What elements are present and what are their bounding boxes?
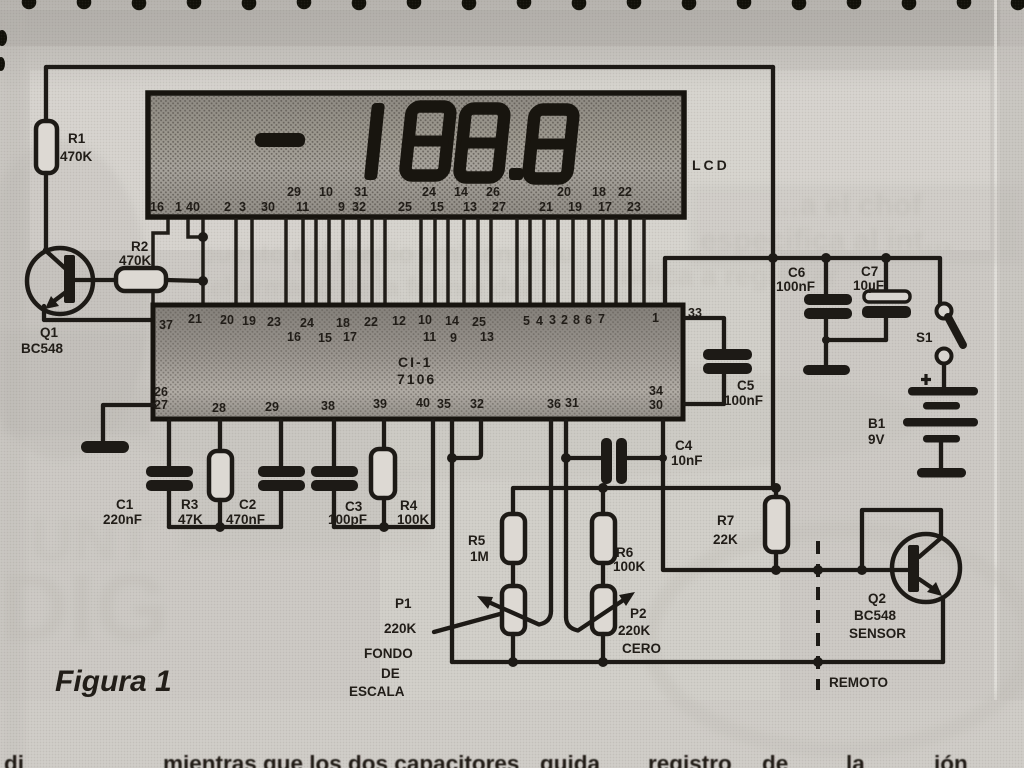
- svg-text:14: 14: [445, 314, 459, 328]
- svg-text:35: 35: [437, 397, 451, 411]
- svg-text:C5: C5: [737, 378, 755, 393]
- wire pin29 to C2: [279, 421, 283, 467]
- svg-text:REMOTO: REMOTO: [829, 675, 888, 690]
- svg-text:16: 16: [150, 200, 164, 214]
- wire pin39 to R4: [382, 421, 386, 450]
- bracket C1 R3 C2: [169, 525, 281, 529]
- svg-text:3: 3: [549, 313, 556, 327]
- top scanner dot row: [0, 0, 1024, 71]
- capacitor C1: [146, 466, 193, 477]
- svg-text:B1: B1: [868, 416, 886, 431]
- bottom rail: [452, 660, 943, 664]
- svg-text:100K: 100K: [613, 559, 646, 574]
- svg-text:100pF: 100pF: [328, 512, 367, 527]
- battery B1: [903, 387, 978, 478]
- svg-text:R1: R1: [68, 131, 86, 146]
- wire pin38 to C3: [332, 421, 336, 467]
- svg-text:7: 7: [598, 312, 605, 326]
- capacitor C5: [703, 349, 752, 360]
- svg-text:30: 30: [261, 200, 275, 214]
- svg-text:28: 28: [212, 401, 226, 415]
- svg-text:2: 2: [224, 200, 231, 214]
- svg-text:S1: S1: [916, 330, 933, 345]
- svg-text:10: 10: [418, 313, 432, 327]
- LCD pin numbers upper row: [287, 185, 632, 199]
- svg-text:17: 17: [598, 200, 612, 214]
- svg-text:14: 14: [454, 185, 468, 199]
- svg-text:26: 26: [486, 185, 500, 199]
- capacitor C7 electrolytic: [884, 258, 888, 292]
- capacitor C4: [566, 456, 601, 460]
- svg-text:13: 13: [480, 330, 494, 344]
- svg-text:18: 18: [336, 316, 350, 330]
- P1 wiper arrowhead: [477, 596, 493, 609]
- svg-text:220K: 220K: [618, 623, 651, 638]
- svg-text:ión: ión: [934, 751, 968, 768]
- svg-text:100K: 100K: [397, 512, 430, 527]
- svg-text:220nF: 220nF: [103, 512, 142, 527]
- svg-text:Figura 1: Figura 1: [55, 665, 172, 698]
- wire right column x=773: [771, 67, 775, 488]
- svg-text:40: 40: [416, 396, 430, 410]
- svg-text:15: 15: [318, 331, 332, 345]
- svg-text:5: 5: [523, 314, 530, 328]
- svg-text:23: 23: [267, 315, 281, 329]
- resistor R5: [502, 514, 525, 563]
- svg-text:24: 24: [300, 316, 314, 330]
- negative bar under C6: [803, 365, 850, 375]
- svg-text:31: 31: [354, 185, 368, 199]
- svg-text:R3: R3: [181, 497, 199, 512]
- svg-text:19: 19: [242, 314, 256, 328]
- svg-text:1M: 1M: [470, 549, 489, 564]
- LCD pin numbers lower row: [150, 200, 641, 214]
- P2 wiper arm: [566, 597, 628, 631]
- wire LCD pins 1,40 stub: [188, 219, 203, 237]
- wire S1 to battery: [942, 364, 946, 388]
- svg-text:2: 2: [561, 313, 568, 327]
- svg-text:29: 29: [265, 400, 279, 414]
- svg-text:31: 31: [565, 396, 579, 410]
- svg-text:3: 3: [239, 200, 246, 214]
- wire pin27 to C1: [167, 421, 171, 467]
- wire pin30 down and across to Q2 base: [663, 421, 908, 570]
- svg-text:C7: C7: [861, 264, 878, 279]
- svg-text:39: 39: [373, 397, 387, 411]
- svg-text:C2: C2: [239, 497, 256, 512]
- LCD display module: [148, 93, 684, 217]
- svg-text:18: 18: [592, 185, 606, 199]
- node dots: [198, 232, 208, 242]
- svg-text:470nF: 470nF: [226, 512, 265, 527]
- svg-text:11: 11: [423, 330, 436, 344]
- svg-text:R6: R6: [616, 545, 634, 560]
- svg-text:220K: 220K: [384, 621, 417, 636]
- IC CI-1 7106: [153, 305, 683, 419]
- svg-text:29: 29: [287, 185, 301, 199]
- svg-text:24: 24: [422, 185, 436, 199]
- svg-text:15: 15: [430, 200, 444, 214]
- resistor R6: [592, 514, 615, 563]
- svg-text:CERO: CERO: [622, 641, 661, 656]
- svg-text:P2: P2: [630, 606, 647, 621]
- switch S1: [937, 304, 964, 364]
- svg-text:11: 11: [296, 200, 309, 214]
- svg-text:21: 21: [539, 200, 553, 214]
- svg-text:ESCALA: ESCALA: [349, 684, 405, 699]
- svg-text:32: 32: [470, 397, 484, 411]
- transistor Q1: [27, 248, 93, 314]
- wire pin35 long to bottom rail: [450, 421, 454, 662]
- svg-text:32: 32: [352, 200, 366, 214]
- svg-text:36: 36: [547, 397, 561, 411]
- svg-text:R7: R7: [717, 513, 734, 528]
- resistor R1: [36, 121, 57, 173]
- svg-text:1: 1: [175, 200, 182, 214]
- wire P1 to rail: [511, 634, 515, 662]
- svg-text:C1: C1: [116, 497, 134, 512]
- wire R1 to Q1 collector: [44, 173, 48, 250]
- svg-text:17: 17: [343, 330, 357, 344]
- svg-text:la: la: [846, 751, 865, 768]
- svg-text:47K: 47K: [178, 512, 203, 527]
- svg-text:22: 22: [364, 315, 378, 329]
- wire pin28 to R3: [218, 421, 222, 452]
- wires LCD to IC bus: [236, 218, 644, 305]
- wire supply rail y=258: [665, 258, 940, 303]
- wire P2 to rail: [601, 634, 605, 662]
- wire R5 R6 R7 top rail: [513, 488, 776, 514]
- svg-text:25: 25: [398, 200, 412, 214]
- wire R2 to node: [166, 280, 203, 281]
- bracket C3 R4 pin40: [334, 421, 433, 527]
- wire Q1 emitter to IC pin37: [44, 306, 154, 320]
- svg-text:20: 20: [557, 185, 571, 199]
- svg-text:P1: P1: [395, 596, 412, 611]
- resistor R3: [209, 451, 232, 500]
- wire Q2 emitter to rail: [941, 598, 945, 662]
- remoto dashed line: [816, 541, 820, 690]
- wire pin33 bracket to C5: [685, 318, 724, 350]
- svg-text:10nF: 10nF: [671, 453, 703, 468]
- LCD digits -188.8: [255, 103, 576, 180]
- svg-text:6: 6: [585, 313, 592, 327]
- ground: [81, 441, 129, 453]
- svg-text:30: 30: [649, 398, 663, 412]
- svg-text:BC548: BC548: [21, 341, 64, 356]
- wire C1 to bracket: [167, 491, 171, 527]
- P1 label callout line: [434, 614, 500, 632]
- capacitor C3: [311, 466, 358, 477]
- svg-text:Q1: Q1: [40, 325, 59, 340]
- svg-text:470K: 470K: [119, 253, 152, 268]
- svg-text:CI-1: CI-1: [398, 354, 432, 370]
- wire R5 to P1: [511, 563, 515, 586]
- wire Q1 base to R2: [75, 278, 116, 282]
- svg-text:13: 13: [463, 200, 477, 214]
- trimpot P2: [592, 586, 615, 634]
- svg-text:FONDO: FONDO: [364, 646, 413, 661]
- svg-text:DE: DE: [381, 666, 400, 681]
- bottom body text cut off: [4, 751, 968, 768]
- svg-text:25: 25: [472, 315, 486, 329]
- wire pin32 jog: [452, 421, 481, 458]
- svg-text:BC548: BC548: [854, 608, 897, 623]
- wire node line to IC: [201, 219, 205, 303]
- IC top pin numbers row1: [159, 311, 659, 332]
- wire LCD pin16 to IC corner: [153, 219, 168, 303]
- junction rail/column: [768, 253, 778, 263]
- svg-text:38: 38: [321, 399, 335, 413]
- svg-text:di: di: [4, 751, 24, 768]
- svg-text:Q2: Q2: [868, 591, 886, 606]
- svg-text:R4: R4: [400, 498, 418, 513]
- wire pin36: [549, 421, 553, 611]
- svg-text:guida: guida: [540, 751, 600, 768]
- battery B1 plus sign: [921, 374, 931, 385]
- svg-text:de: de: [762, 751, 788, 768]
- svg-text:40: 40: [186, 200, 200, 214]
- Q2 collector bracket: [862, 510, 941, 570]
- svg-text:9: 9: [450, 331, 457, 345]
- trimpot P1: [502, 586, 525, 634]
- svg-text:mientras que los dos capacitor: mientras que los dos capacitores: [163, 751, 519, 768]
- wire C5 bottom to pin34: [685, 374, 724, 404]
- svg-text:27: 27: [492, 200, 506, 214]
- svg-text:R2: R2: [131, 239, 148, 254]
- svg-text:registro: registro: [648, 751, 732, 768]
- svg-text:C6: C6: [788, 265, 806, 280]
- P1 wiper arm: [484, 600, 551, 625]
- resistor R4: [371, 449, 395, 498]
- capacitor C2: [258, 466, 305, 477]
- svg-text:12: 12: [392, 314, 406, 328]
- svg-text:10: 10: [319, 185, 333, 199]
- svg-text:9V: 9V: [868, 432, 885, 447]
- P2 wiper arrowhead: [619, 592, 635, 606]
- svg-text:100nF: 100nF: [776, 279, 815, 294]
- svg-text:7106: 7106: [397, 371, 436, 387]
- svg-text:10µF: 10µF: [853, 278, 884, 293]
- svg-text:37: 37: [159, 318, 173, 332]
- svg-text:20: 20: [220, 313, 234, 327]
- capacitor C6: [824, 258, 828, 295]
- wire C6 C7 common: [826, 340, 886, 366]
- IC top pin numbers row2: [287, 330, 494, 345]
- transistor Q2: [892, 534, 960, 602]
- wire top rail from R1 to right column: [46, 67, 773, 122]
- svg-text:9: 9: [338, 200, 345, 214]
- svg-text:1: 1: [652, 311, 659, 325]
- svg-text:22K: 22K: [713, 532, 738, 547]
- svg-text:4: 4: [536, 314, 543, 328]
- wire ground stub from IC left: [103, 405, 154, 441]
- resistor R2: [116, 268, 166, 291]
- IC bottom pin numbers: [154, 384, 663, 415]
- svg-text:C4: C4: [675, 438, 693, 453]
- wire pin31: [564, 421, 568, 617]
- svg-text:34: 34: [649, 384, 663, 398]
- svg-text:16: 16: [287, 330, 301, 344]
- svg-text:19: 19: [568, 200, 582, 214]
- svg-text:SENSOR: SENSOR: [849, 626, 906, 641]
- svg-text:100nF: 100nF: [724, 393, 763, 408]
- svg-text:26: 26: [154, 385, 168, 399]
- svg-text:R5: R5: [468, 533, 486, 548]
- resistor R7: [765, 497, 788, 552]
- svg-text:23: 23: [627, 200, 641, 214]
- svg-text:8: 8: [573, 313, 580, 327]
- svg-text:21: 21: [188, 312, 202, 326]
- svg-text:LCD: LCD: [692, 157, 730, 173]
- svg-text:22: 22: [618, 185, 632, 199]
- svg-text:470K: 470K: [60, 149, 93, 164]
